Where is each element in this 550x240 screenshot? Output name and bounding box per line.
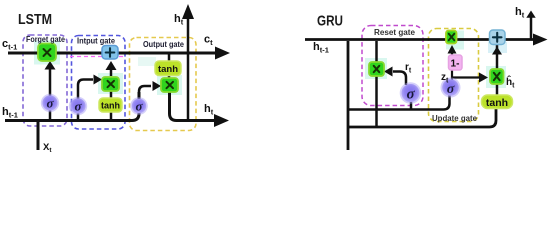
wire: LSTM cell state line c bbox=[8, 52, 216, 55]
svg-text:LSTM: LSTM bbox=[18, 11, 52, 28]
wire: reset sigma stem bbox=[410, 101, 413, 110]
multiply update (green x box) bbox=[446, 31, 457, 44]
multiply forget (green x box) bbox=[38, 44, 56, 62]
wire: output sigma curve with arrow into output x bbox=[139, 86, 151, 99]
sigma input bbox=[69, 97, 87, 115]
wire: GRU h line bbox=[305, 38, 534, 41]
multiply h-hat (green x box) bbox=[490, 69, 504, 84]
svg-text:1-: 1- bbox=[451, 59, 460, 70]
arrowhead h_t top bbox=[182, 4, 194, 19]
add GRU (blue plus box) bbox=[490, 30, 506, 45]
svg-text:σ: σ bbox=[74, 99, 82, 114]
arrowhead h_t right bbox=[214, 114, 229, 127]
wire: tanh input branch vertical bbox=[110, 91, 113, 119]
halo h-hat x bbox=[486, 66, 506, 88]
update gate box bbox=[429, 29, 479, 122]
multiply output (green x box) bbox=[161, 78, 178, 92]
arrowhead GRU h right bbox=[533, 34, 548, 46]
add input (blue plus box) bbox=[102, 46, 118, 60]
wire: arrow from 1- up to update x bbox=[451, 53, 453, 55]
output gate box bbox=[130, 38, 197, 131]
svg-text:Update gate: Update gate bbox=[432, 114, 478, 123]
tanh GRU box bbox=[482, 95, 513, 109]
input gate box bbox=[72, 36, 126, 130]
tanh output box bbox=[155, 61, 181, 76]
wire: reset x feed and output V2 bbox=[375, 41, 378, 127]
sigma update bbox=[441, 78, 461, 98]
wire: c down into output tanh bbox=[168, 54, 171, 63]
halo update x bbox=[446, 31, 464, 50]
wire: reset sigma output curve arrow into reset x bbox=[393, 72, 406, 86]
wire: H1 bus to update sigma bbox=[348, 95, 450, 110]
wire: h_t up branch bbox=[187, 18, 190, 121]
svg-text:σ: σ bbox=[135, 99, 143, 114]
wire: z line from sigma up to 1- bbox=[451, 70, 453, 80]
halo input x bbox=[98, 73, 123, 94]
faint smudge in output gate bbox=[138, 57, 156, 66]
tanh input box bbox=[99, 98, 122, 112]
wire: H2 bus to tanh bbox=[348, 108, 496, 127]
halo forget x bbox=[34, 41, 60, 65]
wire: forget branch vertical bbox=[49, 68, 52, 119]
svg-text:tanh: tanh bbox=[486, 97, 508, 109]
wire: output x down and right to h_t bbox=[170, 92, 216, 121]
svg-text:tanh: tanh bbox=[158, 64, 178, 75]
box 1- bbox=[449, 55, 463, 70]
sigma output bbox=[130, 97, 148, 115]
svg-text:Reset gate: Reset gate bbox=[374, 28, 416, 37]
reset gate box bbox=[362, 26, 423, 106]
wire: vertical through plus, h-hat x, tanh bbox=[496, 41, 499, 96]
arrowhead c_t bbox=[215, 47, 230, 60]
sigma forget bbox=[41, 94, 59, 112]
wire: tanh to output x bbox=[168, 75, 171, 79]
wire: input sigma branch curving right bbox=[78, 80, 93, 120]
wire: GRU h_t up branch bbox=[530, 17, 533, 40]
forget gate box bbox=[23, 35, 67, 126]
svg-text:Intput gate: Intput gate bbox=[77, 37, 116, 46]
wire: z branch arrow into h-hat x bbox=[452, 76, 479, 78]
wire arrow from input x up to plus bbox=[110, 69, 113, 76]
svg-text:tanh: tanh bbox=[101, 101, 120, 111]
halo GRU plus bbox=[488, 42, 507, 53]
halo reset x bbox=[365, 58, 387, 79]
svg-text:Output gate: Output gate bbox=[143, 39, 184, 49]
arrowhead into input x bbox=[94, 75, 103, 85]
wire: LSTM h line bottom curving up into output sigma bbox=[5, 92, 139, 121]
sigma reset bbox=[400, 82, 422, 104]
multiply reset (green x box) bbox=[369, 62, 384, 76]
svg-text:σ: σ bbox=[406, 87, 415, 103]
wire: GRU h_t-1 down branch V1 bbox=[347, 41, 350, 150]
wire: x_t input vertical bbox=[37, 122, 40, 150]
svg-text:GRU: GRU bbox=[317, 13, 343, 30]
arrowhead from h-hat x into plus bbox=[492, 47, 502, 55]
pink dashed annotation line in input gate bbox=[70, 56, 124, 58]
svg-text:σ: σ bbox=[46, 96, 54, 111]
svg-text:Forget gate: Forget gate bbox=[26, 35, 66, 44]
halo output x bbox=[157, 75, 182, 95]
arrowhead into forget x bbox=[45, 61, 56, 70]
multiply input (green x box) bbox=[102, 77, 119, 91]
